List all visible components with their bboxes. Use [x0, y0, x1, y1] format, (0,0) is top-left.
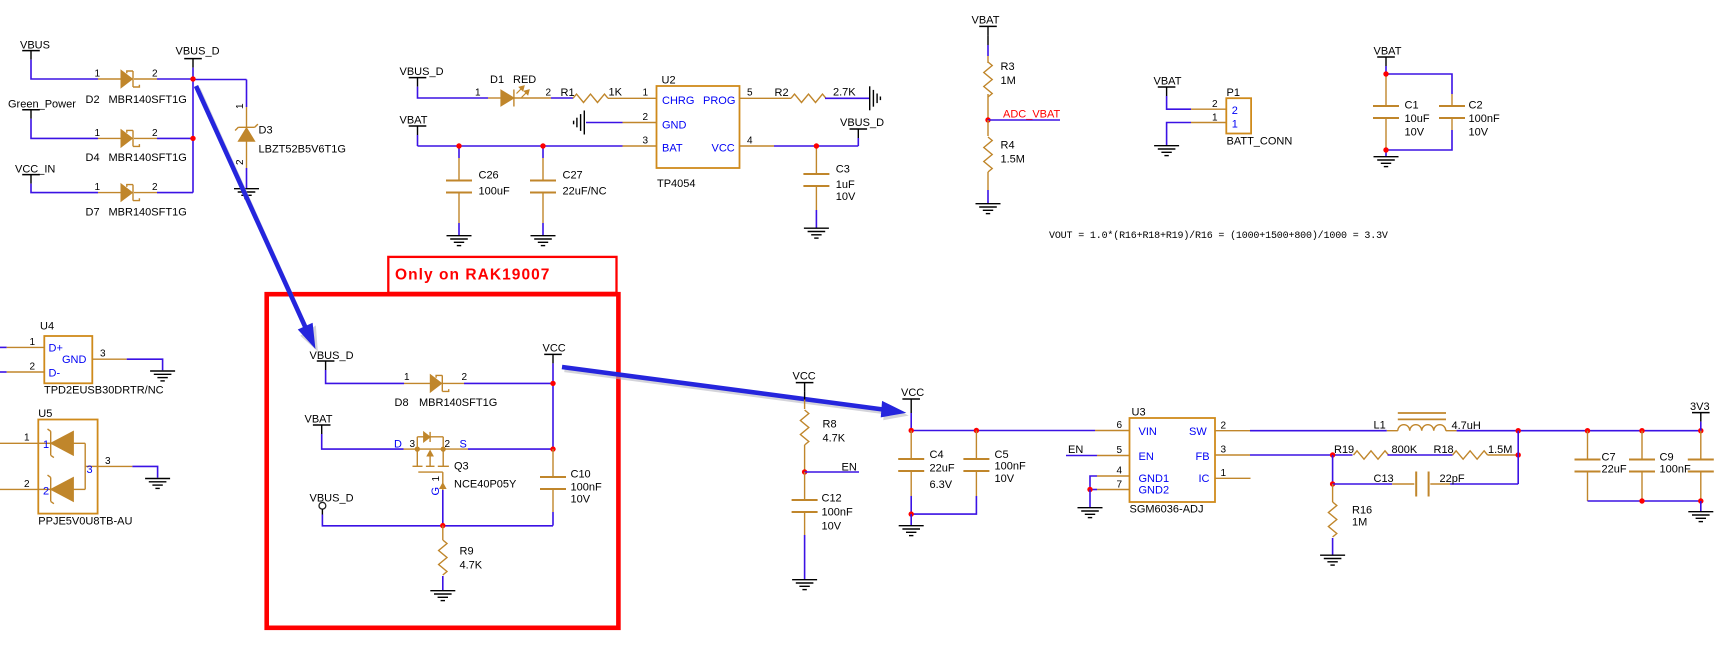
svg-text:D: D: [394, 439, 402, 451]
svg-text:VBUS_D: VBUS_D: [176, 46, 220, 58]
svg-text:G: G: [430, 487, 442, 496]
svg-text:MBR140SFT1G: MBR140SFT1G: [109, 152, 187, 164]
svg-text:Q3: Q3: [454, 461, 469, 473]
svg-text:5: 5: [1117, 445, 1123, 456]
svg-text:1.5M: 1.5M: [1001, 153, 1025, 165]
svg-text:2: 2: [43, 486, 49, 498]
svg-text:1: 1: [95, 68, 101, 79]
svg-text:1.5M: 1.5M: [1488, 444, 1512, 456]
svg-text:Green_Power: Green_Power: [8, 98, 76, 110]
svg-text:800K: 800K: [1392, 444, 1418, 456]
svg-text:C27: C27: [563, 169, 583, 181]
svg-text:1: 1: [475, 87, 481, 98]
svg-text:10V: 10V: [1469, 126, 1489, 138]
svg-text:C7: C7: [1602, 451, 1616, 463]
svg-text:3: 3: [1221, 445, 1227, 456]
svg-text:1M: 1M: [1352, 516, 1367, 528]
svg-text:C10: C10: [571, 469, 591, 481]
svg-text:D-: D-: [49, 368, 61, 380]
svg-text:R3: R3: [1001, 61, 1015, 73]
svg-text:1: 1: [404, 372, 410, 383]
svg-text:R1: R1: [561, 87, 575, 99]
svg-text:6.3V: 6.3V: [930, 479, 953, 491]
svg-text:L1: L1: [1374, 419, 1386, 431]
svg-text:2: 2: [546, 87, 552, 98]
svg-text:GND: GND: [662, 120, 687, 132]
svg-text:VCC: VCC: [793, 371, 816, 383]
svg-text:R2: R2: [775, 87, 789, 99]
svg-text:1: 1: [431, 476, 442, 482]
svg-text:PROG: PROG: [703, 95, 735, 107]
svg-text:10V: 10V: [995, 473, 1015, 485]
svg-text:1K: 1K: [609, 86, 623, 98]
svg-text:RED: RED: [513, 74, 536, 86]
svg-text:VCC: VCC: [712, 143, 735, 155]
svg-text:22uF/NC: 22uF/NC: [563, 185, 607, 197]
svg-text:2: 2: [1221, 420, 1227, 431]
svg-text:C1: C1: [1405, 100, 1419, 112]
svg-text:5: 5: [747, 88, 753, 99]
svg-text:D4: D4: [86, 152, 100, 164]
svg-text:VCC_IN: VCC_IN: [15, 164, 55, 176]
svg-text:TP4054: TP4054: [657, 178, 696, 190]
svg-text:1: 1: [95, 182, 101, 193]
svg-text:MBR140SFT1G: MBR140SFT1G: [419, 397, 497, 409]
svg-text:R4: R4: [1001, 139, 1015, 151]
svg-text:VOUT = 1.0*(R16+R18+R19)/R16 =: VOUT = 1.0*(R16+R18+R19)/R16 = (1000+150…: [1049, 230, 1388, 242]
svg-text:VBAT: VBAT: [305, 414, 333, 426]
svg-text:R8: R8: [823, 419, 837, 431]
svg-text:VBAT: VBAT: [972, 15, 1000, 27]
svg-text:2: 2: [152, 128, 158, 139]
svg-text:2: 2: [445, 439, 451, 450]
svg-text:100nF: 100nF: [995, 461, 1026, 473]
svg-text:C26: C26: [479, 169, 499, 181]
svg-text:SGM6036-ADJ: SGM6036-ADJ: [1130, 503, 1204, 515]
svg-text:U2: U2: [662, 75, 676, 87]
svg-text:4.7K: 4.7K: [460, 560, 483, 572]
svg-text:1: 1: [30, 337, 36, 348]
svg-text:D3: D3: [259, 125, 273, 137]
svg-text:VBUS_D: VBUS_D: [310, 350, 354, 362]
svg-text:S: S: [460, 439, 467, 451]
svg-text:VCC: VCC: [543, 343, 566, 355]
svg-text:3: 3: [105, 456, 111, 467]
svg-text:2: 2: [24, 479, 30, 490]
svg-text:VBUS: VBUS: [20, 40, 50, 52]
svg-text:2: 2: [1232, 105, 1238, 117]
svg-text:U4: U4: [40, 320, 54, 332]
svg-text:10V: 10V: [571, 494, 591, 506]
svg-text:GND1: GND1: [1139, 473, 1170, 485]
svg-text:R16: R16: [1352, 505, 1372, 517]
svg-text:BAT: BAT: [662, 143, 683, 155]
svg-text:MBR140SFT1G: MBR140SFT1G: [109, 207, 187, 219]
svg-text:LBZT52B5V6T1G: LBZT52B5V6T1G: [259, 143, 346, 155]
svg-text:10V: 10V: [1405, 126, 1425, 138]
svg-text:VBAT: VBAT: [1154, 76, 1182, 88]
svg-text:FB: FB: [1196, 451, 1210, 463]
svg-text:VIN: VIN: [1139, 426, 1157, 438]
svg-text:ADC_VBAT: ADC_VBAT: [1003, 108, 1061, 120]
svg-text:1: 1: [1232, 118, 1238, 130]
svg-text:SW: SW: [1189, 426, 1207, 438]
svg-text:22uF: 22uF: [1602, 463, 1627, 475]
svg-text:2: 2: [30, 361, 36, 372]
svg-text:Only on RAK19007: Only on RAK19007: [395, 267, 550, 284]
svg-text:100nF: 100nF: [1660, 463, 1691, 475]
svg-text:CHRG: CHRG: [662, 95, 694, 107]
svg-text:4: 4: [1117, 465, 1123, 476]
svg-text:1: 1: [235, 103, 246, 109]
svg-text:1: 1: [1212, 112, 1218, 123]
svg-text:TPD2EUSB30DRTR/NC: TPD2EUSB30DRTR/NC: [44, 384, 164, 396]
svg-text:1: 1: [1221, 468, 1227, 479]
svg-text:4.7K: 4.7K: [823, 433, 846, 445]
svg-text:C13: C13: [1374, 473, 1394, 485]
svg-text:BATT_CONN: BATT_CONN: [1227, 136, 1293, 148]
svg-text:3V3: 3V3: [1690, 401, 1710, 413]
svg-text:100nF: 100nF: [1469, 113, 1500, 125]
svg-text:2: 2: [152, 182, 158, 193]
svg-text:EN: EN: [1068, 444, 1083, 456]
svg-text:3: 3: [643, 136, 649, 147]
svg-text:1: 1: [24, 433, 30, 444]
svg-text:EN: EN: [1139, 451, 1154, 463]
svg-text:3: 3: [87, 464, 93, 476]
svg-text:GND2: GND2: [1139, 485, 1170, 497]
svg-text:3: 3: [100, 349, 106, 360]
svg-text:1uF: 1uF: [836, 179, 855, 191]
svg-text:IC: IC: [1199, 473, 1210, 485]
svg-text:10V: 10V: [822, 521, 842, 533]
svg-text:R9: R9: [460, 546, 474, 558]
svg-text:D2: D2: [86, 94, 100, 106]
svg-text:U3: U3: [1132, 406, 1146, 418]
svg-text:MBR140SFT1G: MBR140SFT1G: [109, 94, 187, 106]
svg-text:100nF: 100nF: [822, 507, 853, 519]
svg-text:10V: 10V: [836, 191, 856, 203]
svg-text:D8: D8: [395, 397, 409, 409]
svg-text:10uF: 10uF: [1405, 113, 1430, 125]
svg-text:2.7K: 2.7K: [833, 86, 856, 98]
svg-text:2: 2: [462, 372, 468, 383]
svg-text:22pF: 22pF: [1440, 473, 1465, 485]
svg-text:P1: P1: [1227, 87, 1240, 99]
svg-text:D7: D7: [86, 207, 100, 219]
svg-text:C5: C5: [995, 449, 1009, 461]
svg-text:1: 1: [43, 439, 49, 451]
svg-text:2: 2: [235, 159, 246, 165]
svg-text:C9: C9: [1660, 451, 1674, 463]
svg-text:D+: D+: [49, 342, 63, 354]
svg-text:C2: C2: [1469, 100, 1483, 112]
svg-text:1M: 1M: [1001, 75, 1016, 87]
svg-text:GND: GND: [62, 354, 87, 366]
svg-text:NCE40P05Y: NCE40P05Y: [454, 479, 517, 491]
svg-text:U5: U5: [38, 408, 52, 420]
svg-text:C4: C4: [930, 449, 944, 461]
svg-text:2: 2: [152, 68, 158, 79]
svg-text:3: 3: [410, 439, 416, 450]
svg-text:PPJE5V0U8TB-AU: PPJE5V0U8TB-AU: [38, 516, 132, 528]
svg-text:VBUS_D: VBUS_D: [310, 493, 354, 505]
svg-text:D1: D1: [490, 74, 504, 86]
svg-text:1: 1: [95, 128, 101, 139]
svg-text:100nF: 100nF: [571, 482, 602, 494]
svg-text:1: 1: [643, 88, 649, 99]
svg-text:100uF: 100uF: [479, 185, 510, 197]
svg-text:2: 2: [643, 112, 649, 123]
svg-text:VBAT: VBAT: [400, 115, 428, 127]
svg-text:R18: R18: [1434, 444, 1454, 456]
svg-text:C12: C12: [822, 493, 842, 505]
svg-text:VCC: VCC: [901, 387, 924, 399]
svg-text:6: 6: [1117, 420, 1123, 431]
svg-text:VBUS_D: VBUS_D: [400, 66, 444, 78]
svg-text:VBAT: VBAT: [1374, 46, 1402, 58]
svg-text:4: 4: [747, 136, 753, 147]
svg-text:22uF: 22uF: [930, 462, 955, 474]
svg-text:EN: EN: [842, 462, 857, 474]
svg-text:R19: R19: [1334, 444, 1354, 456]
svg-text:2: 2: [1212, 99, 1218, 110]
svg-text:C3: C3: [836, 164, 850, 176]
svg-text:VBUS_D: VBUS_D: [840, 117, 884, 129]
